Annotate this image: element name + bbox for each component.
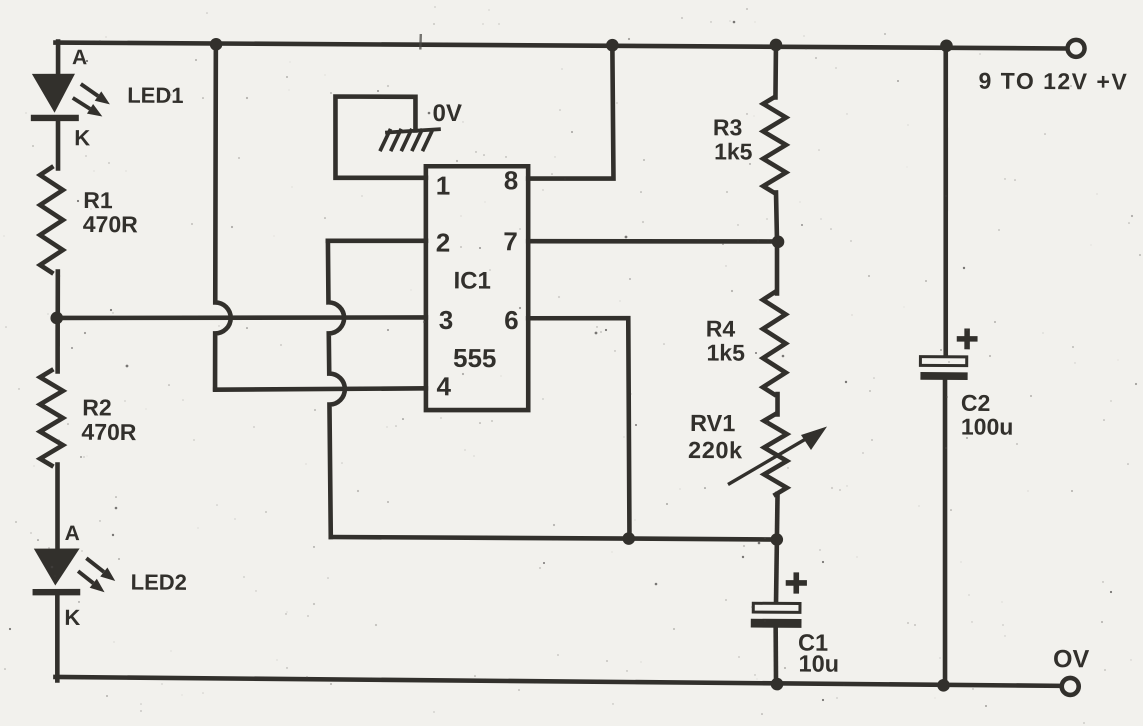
svg-text:OV: OV [1053,645,1090,673]
svg-text:1k5: 1k5 [714,138,753,164]
svg-text:A: A [65,522,80,545]
svg-text:K: K [64,605,80,630]
svg-text:IC1: IC1 [453,267,491,294]
svg-text:8: 8 [504,165,519,195]
svg-text:100u: 100u [961,413,1014,439]
svg-text:R3: R3 [713,114,743,140]
svg-text:R1: R1 [83,187,113,213]
svg-text:LED2: LED2 [131,570,187,595]
svg-text:6: 6 [504,305,519,335]
svg-text:3: 3 [439,305,454,335]
svg-text:470R: 470R [81,419,137,445]
svg-text:A: A [72,46,87,69]
svg-text:1: 1 [436,171,451,201]
svg-text:1k5: 1k5 [706,339,745,365]
svg-text:10u: 10u [798,651,839,677]
svg-text:RV1: RV1 [690,410,735,436]
svg-text:4: 4 [436,371,451,401]
svg-text:C2: C2 [961,390,991,416]
svg-text:9 TO 12V +V: 9 TO 12V +V [978,68,1128,95]
svg-text:470R: 470R [83,211,139,237]
svg-text:555: 555 [453,343,497,373]
svg-text:LED1: LED1 [127,83,183,108]
svg-text:2: 2 [436,228,451,258]
svg-text:K: K [74,125,90,150]
svg-text:R4: R4 [706,315,736,341]
svg-text:220k: 220k [688,437,743,463]
svg-text:7: 7 [503,226,518,256]
svg-text:R2: R2 [82,394,112,420]
svg-text:0V: 0V [432,100,462,127]
